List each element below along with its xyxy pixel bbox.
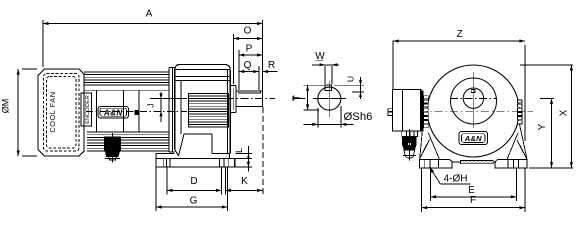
svg-text:J: J xyxy=(146,103,156,107)
svg-text:R: R xyxy=(268,60,275,71)
svg-text:Z: Z xyxy=(456,29,462,40)
svg-text:F: F xyxy=(470,195,476,206)
svg-text:4-ØH: 4-ØH xyxy=(444,174,468,185)
svg-text:O: O xyxy=(244,26,252,37)
svg-text:A&N: A&N xyxy=(103,109,123,118)
svg-text:ØSh6: ØSh6 xyxy=(344,111,373,123)
svg-text:L: L xyxy=(234,148,244,153)
svg-text:T: T xyxy=(292,95,302,100)
svg-text:Y: Y xyxy=(537,123,548,130)
svg-text:ØM: ØM xyxy=(1,99,11,114)
svg-text:X: X xyxy=(559,109,570,116)
svg-text:D: D xyxy=(190,176,197,187)
svg-text:A&N: A&N xyxy=(464,134,482,143)
svg-text:P: P xyxy=(246,44,253,55)
svg-text:Q: Q xyxy=(244,60,252,71)
svg-text:ENCODER: ENCODER xyxy=(85,95,91,124)
svg-text:A: A xyxy=(146,9,153,20)
svg-text:K: K xyxy=(241,176,248,187)
svg-text:U: U xyxy=(346,76,356,82)
svg-text:G: G xyxy=(190,195,198,206)
svg-text:COOL FAN: COOL FAN xyxy=(48,91,57,132)
